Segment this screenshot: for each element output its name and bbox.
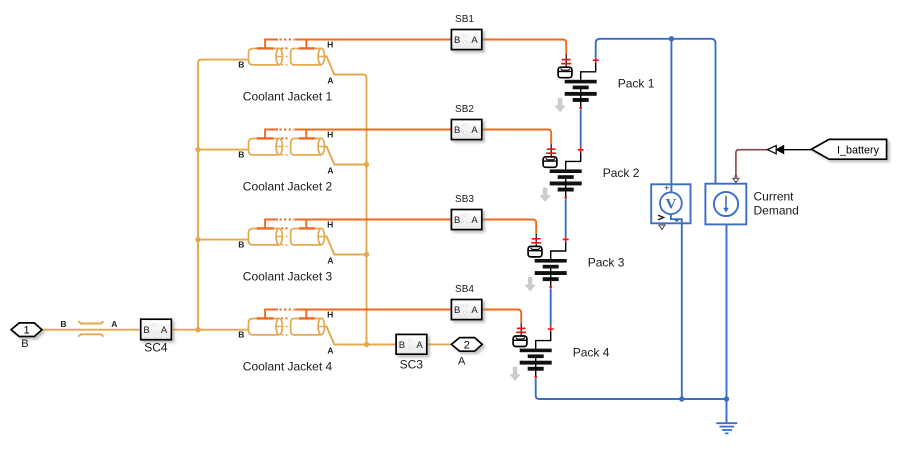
wire: SC4 to coolant jacket 4 B with junction branch <box>171 329 248 331</box>
coolant jacket 4 icon <box>238 310 333 356</box>
block SC3 <box>396 334 427 371</box>
svg-text:Coolant Jacket 1: Coolant Jacket 1 <box>243 89 333 103</box>
junction dot top bus <box>669 36 674 41</box>
svg-text:Demand: Demand <box>754 203 799 217</box>
block SB1 <box>451 14 481 49</box>
wire: coolant jacket 2 H pipe to SB2 <box>295 129 452 131</box>
wire: coolant jacket 1 H pipe to SB1 <box>295 39 452 41</box>
svg-text:B: B <box>238 240 244 250</box>
svg-text:A: A <box>327 166 333 176</box>
svg-text:H: H <box>327 40 333 50</box>
svg-text:A: A <box>416 340 423 351</box>
svg-text:SC3: SC3 <box>400 358 424 372</box>
connection break symbol upper bracket <box>78 321 103 323</box>
svg-text:SC4: SC4 <box>144 341 168 355</box>
svg-text:Pack 4: Pack 4 <box>573 345 610 359</box>
junction A-manifold row4 <box>364 342 369 347</box>
port 2 hexagon <box>451 338 482 368</box>
svg-text:B: B <box>454 35 460 46</box>
svg-text:A: A <box>111 319 117 329</box>
wire: top bus junction down to voltage sensor <box>670 39 672 193</box>
svg-text:B: B <box>143 325 149 336</box>
wire: B stub row3 <box>198 239 249 241</box>
svg-text:Pack 2: Pack 2 <box>603 166 640 180</box>
svg-text:Current: Current <box>754 190 795 204</box>
svg-text:A: A <box>327 256 333 266</box>
wire: coolant jacket 4 H pipe to SB4 <box>295 309 452 311</box>
wire: left vertical B-manifold <box>198 60 249 330</box>
wire: A stub row4 to SC3 <box>324 327 396 345</box>
svg-text:+: + <box>664 183 669 193</box>
svg-text:A: A <box>458 355 466 367</box>
wire: pack1 + to top bus, V-sensor branch and current source <box>596 39 716 185</box>
svg-text:SB1: SB1 <box>455 14 474 25</box>
battery Pack 2 <box>540 144 584 202</box>
connection break symbol lower bracket <box>78 334 103 336</box>
wire: coolant jacket 3 H pipe to SB3 <box>295 219 452 221</box>
wire: pack4 - to ground bus <box>536 378 727 399</box>
wire: voltage sensor out down to bus <box>681 224 683 400</box>
wire: SB2 to pack 2 thermal port <box>482 130 551 145</box>
wire: hexagon 1 to SC4 <box>42 329 141 331</box>
svg-text:A: A <box>471 35 478 46</box>
svg-text:A: A <box>161 325 168 336</box>
wire: From tag to arrowheads <box>784 149 811 151</box>
svg-text:B: B <box>238 150 244 160</box>
wire: A stub row3 <box>324 237 366 255</box>
voltage sensor block <box>651 183 690 229</box>
port 1 hexagon <box>11 323 42 350</box>
svg-text:B: B <box>399 340 405 351</box>
svg-text:Coolant Jacket 2: Coolant Jacket 2 <box>243 179 333 193</box>
wire: current source down to bus <box>726 224 728 399</box>
current source block <box>705 178 746 224</box>
ground symbol <box>716 423 737 433</box>
svg-text:2: 2 <box>464 339 470 351</box>
svg-text:B: B <box>454 215 460 226</box>
svg-text:I_battery: I_battery <box>837 145 880 157</box>
svg-text:H: H <box>327 130 333 140</box>
junction A-manifold row3 <box>364 252 369 257</box>
svg-text:A: A <box>471 125 478 136</box>
wire: pack 3 - to pack 4 + <box>550 289 552 326</box>
junction B-manifold row2 <box>195 147 200 152</box>
junction bottom bus at voltage sensor <box>679 396 684 401</box>
svg-text:A: A <box>471 215 478 226</box>
block SB2 <box>451 104 481 139</box>
svg-text:B: B <box>454 305 460 316</box>
svg-text:SB4: SB4 <box>455 284 474 295</box>
svg-text:A: A <box>327 76 333 86</box>
svg-text:SB2: SB2 <box>455 104 474 115</box>
signal arrowheads <box>767 146 776 154</box>
block SB3 <box>451 194 481 229</box>
wire: SC3 to hexagon 2 <box>427 343 452 345</box>
From tag I_battery <box>811 139 886 159</box>
svg-text:V: V <box>665 197 676 213</box>
wire: SB1 to pack 1 thermal port <box>482 40 566 55</box>
svg-text:Coolant Jacket 4: Coolant Jacket 4 <box>243 359 333 373</box>
block SC4 <box>141 319 172 354</box>
signal wire I_battery to current source <box>736 150 767 176</box>
coolant jacket 2 icon <box>238 130 333 176</box>
junction bottom bus at current source / ground <box>724 396 729 401</box>
wire: bus stub to ground <box>726 399 728 423</box>
svg-text:Pack 3: Pack 3 <box>588 256 625 270</box>
svg-text:B: B <box>238 330 244 340</box>
wire: pack 2 - to pack 3 + <box>565 199 567 236</box>
svg-text:B: B <box>454 125 460 136</box>
junction A-manifold row2 <box>364 162 369 167</box>
wire: pack 1 - to pack 2 + <box>580 110 582 147</box>
svg-text:A: A <box>327 346 333 356</box>
svg-text:B: B <box>60 319 66 329</box>
battery Pack 4 <box>510 323 554 381</box>
wire: B stub row2 <box>198 149 249 151</box>
battery Pack 1 <box>555 55 599 113</box>
junction B-manifold row3 <box>195 237 200 242</box>
svg-text:H: H <box>327 220 333 230</box>
wire: SB3 to pack 3 thermal port <box>482 220 536 234</box>
svg-text:Coolant Jacket 3: Coolant Jacket 3 <box>243 269 333 283</box>
svg-text:B: B <box>238 60 244 70</box>
svg-text:A: A <box>471 305 478 316</box>
block SB4 <box>451 284 481 319</box>
battery Pack 3 <box>525 234 569 291</box>
coolant jacket 3 icon <box>238 220 333 266</box>
svg-text:1: 1 <box>23 325 29 337</box>
svg-text:B: B <box>21 338 28 350</box>
wire: A stub row2 <box>324 147 366 165</box>
wire: A manifold right vertical <box>324 57 366 345</box>
svg-text:Pack 1: Pack 1 <box>618 77 655 91</box>
wire: SB4 to pack 4 thermal port <box>482 310 521 324</box>
svg-text:H: H <box>327 310 333 320</box>
svg-text:SB3: SB3 <box>455 194 474 205</box>
junction B-manifold row4 <box>195 327 200 332</box>
coolant jacket 1 icon <box>238 40 333 86</box>
